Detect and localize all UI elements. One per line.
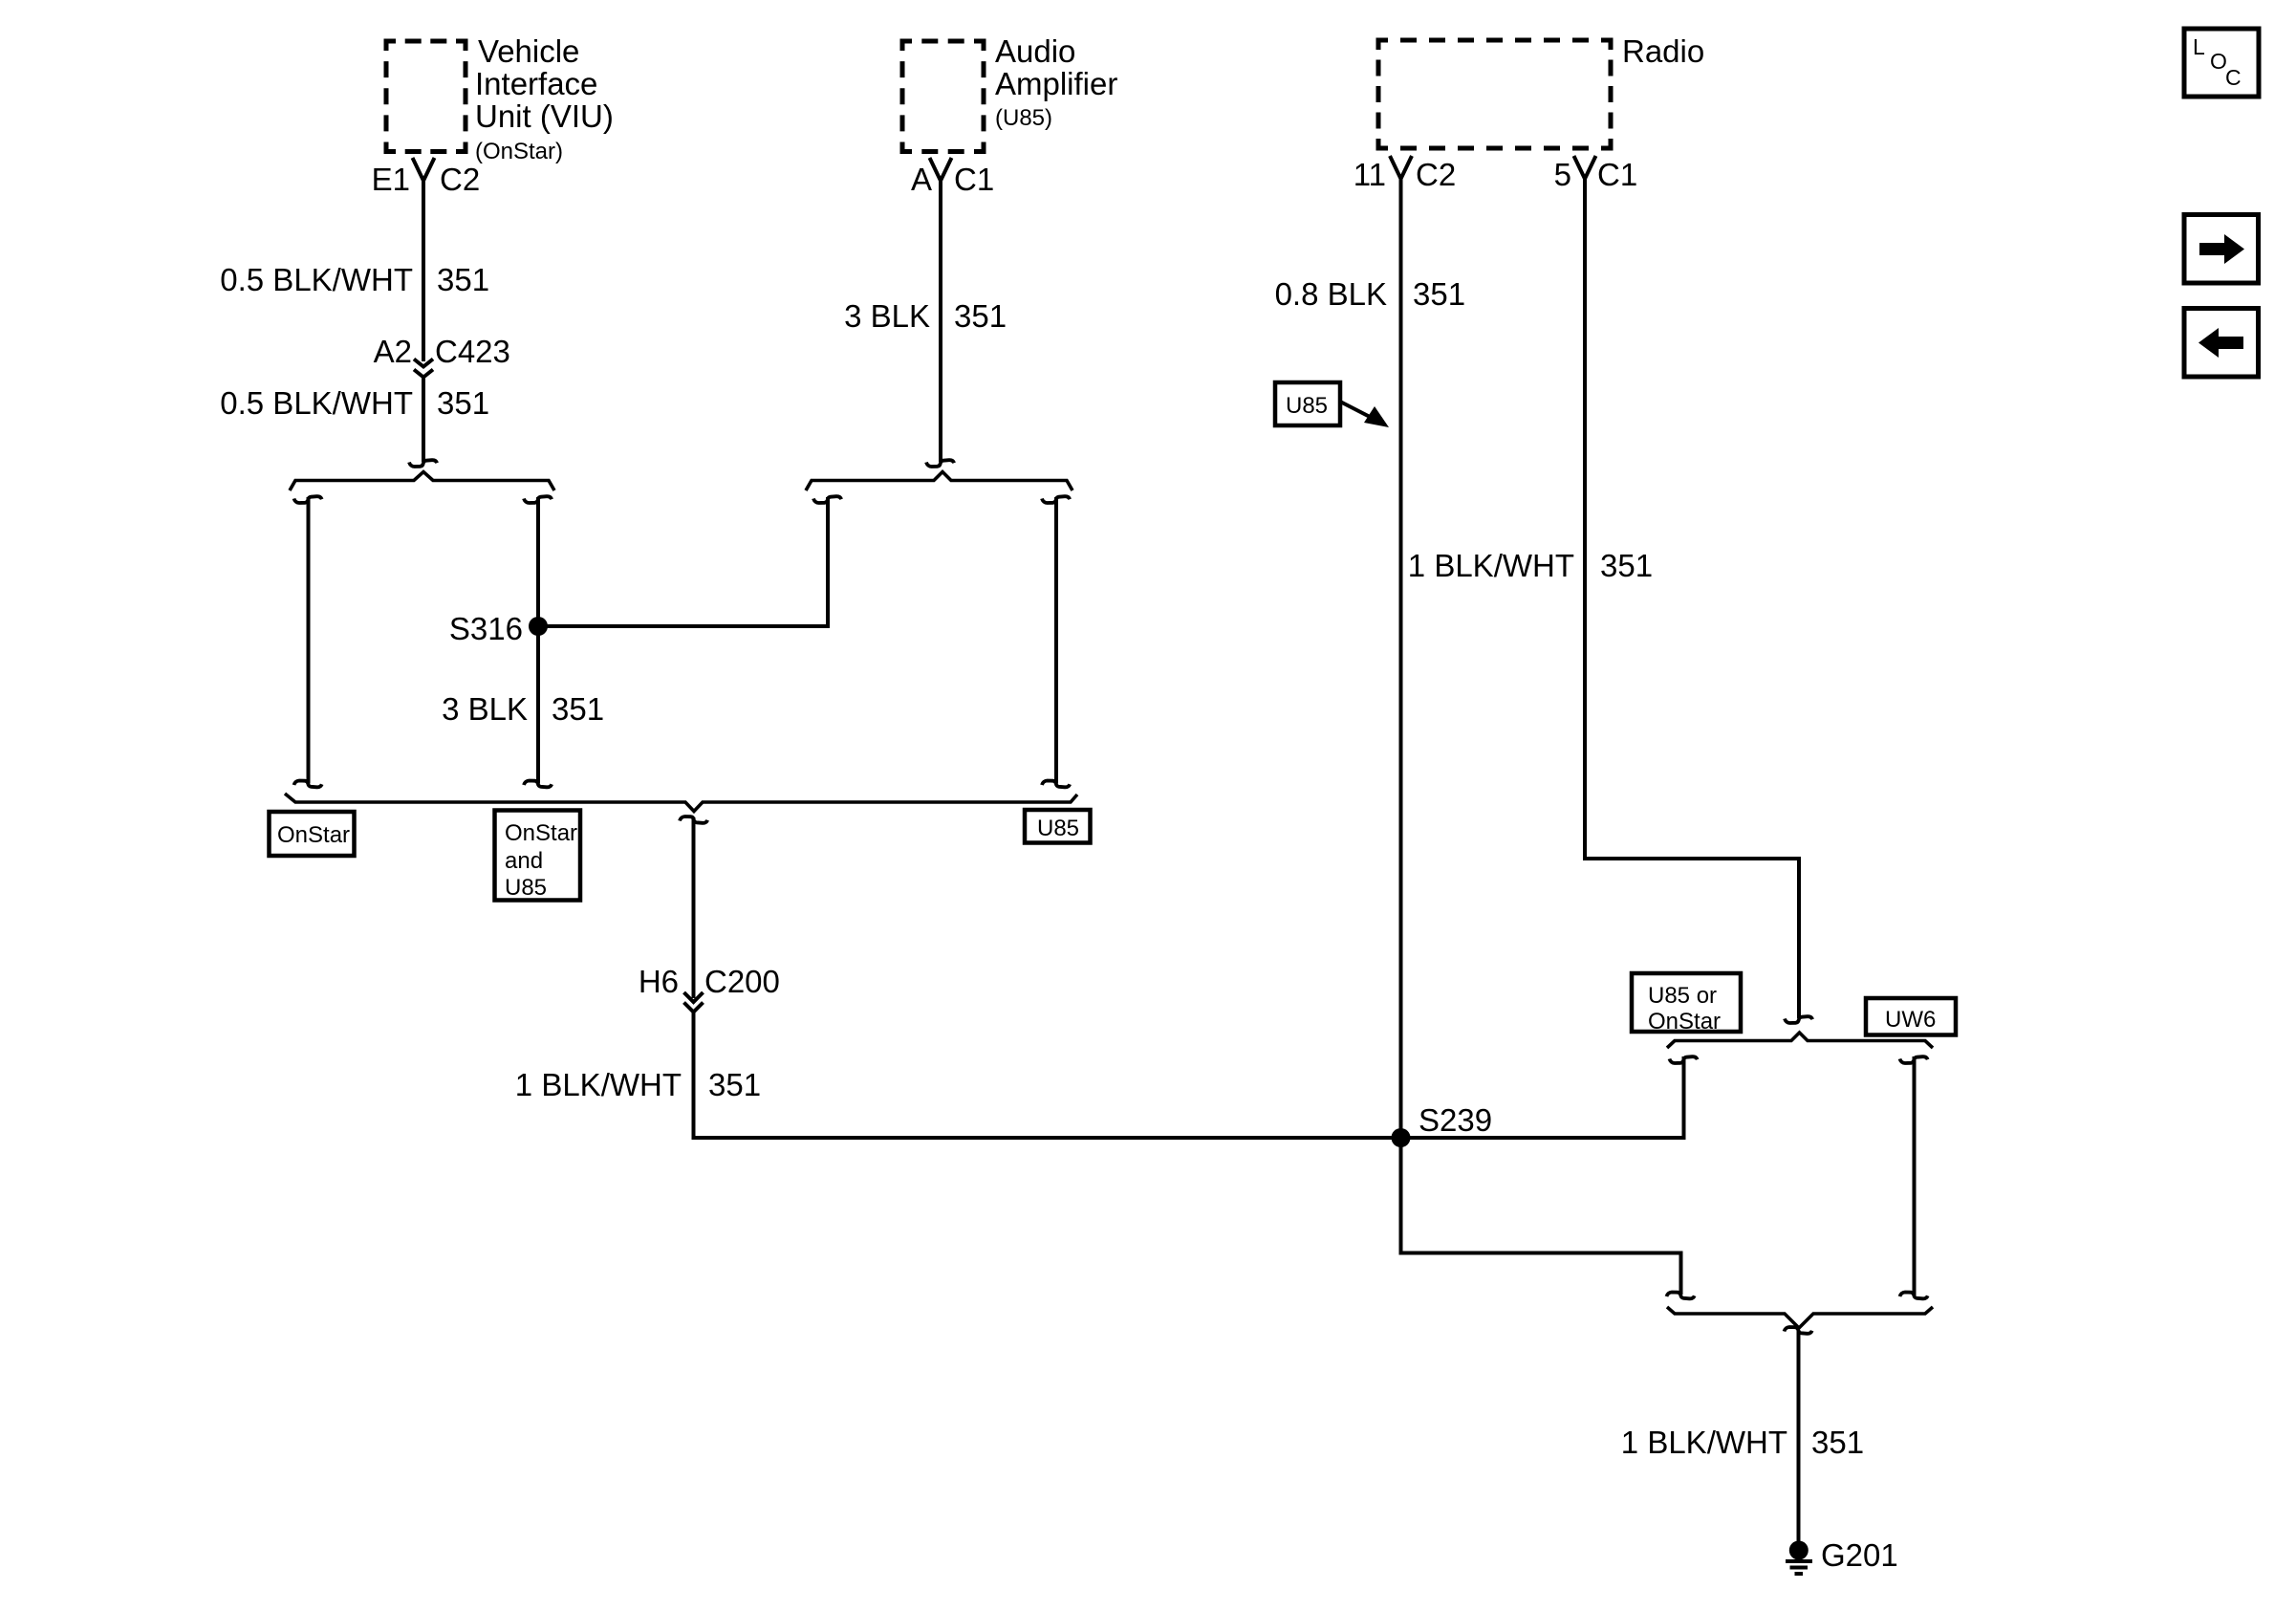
label box OnStar (270, 812, 355, 856)
svg-text:11: 11 (1354, 157, 1386, 192)
svg-text:Amplifier: Amplifier (995, 66, 1117, 101)
wire end hook above right bundle brace (1785, 1016, 1812, 1023)
splice S316 dot (529, 617, 548, 636)
left harness top brace (OnStar group) (290, 472, 554, 491)
svg-text:C1: C1 (954, 162, 994, 197)
wire 351 from amplifier (939, 181, 942, 462)
svg-text:U85: U85 (1286, 393, 1328, 419)
svg-text:Vehicle: Vehicle (478, 33, 579, 69)
hook at top of U85-or-OnStar branch wire (1670, 1056, 1698, 1063)
LOC legend icon box (2184, 29, 2259, 97)
wire from bundle down to C200 (upper segment) (692, 817, 696, 998)
svg-text:UW6: UW6 (1885, 1007, 1936, 1033)
wire 351 below C423 (422, 378, 425, 463)
hook at top of S316-to-U85 branch wire (813, 496, 841, 503)
svg-text:351: 351 (552, 691, 604, 727)
svg-text:OnStar: OnStar (277, 822, 350, 848)
connector box U3 Radio dashed outline (1378, 40, 1611, 148)
wire 351 below C200 to S239 (694, 1012, 1401, 1139)
hook at top of U85 branch wire (1042, 496, 1070, 503)
svg-text:1 BLK/WHT: 1 BLK/WHT (1408, 548, 1574, 583)
label box U85 at bottom line (1025, 810, 1091, 843)
harness bottom line with cusp to C200 (285, 794, 1077, 812)
in-line connector C200 chevrons (684, 992, 704, 1012)
svg-text:0.8 BLK: 0.8 BLK (1275, 276, 1387, 312)
svg-text:351: 351 (954, 298, 1007, 334)
label box OnStar and U85 (495, 811, 581, 901)
svg-text:OnStar: OnStar (1648, 1009, 1721, 1034)
wire from S239 down and right to lower bundle (1401, 1138, 1681, 1295)
svg-text:S239: S239 (1419, 1102, 1492, 1138)
svg-text:E1: E1 (372, 162, 410, 197)
svg-text:U85: U85 (1037, 816, 1079, 841)
svg-text:0.5 BLK/WHT: 0.5 BLK/WHT (220, 262, 413, 297)
hook at bottom of S316 branch wire (524, 781, 552, 788)
right bundle top brace (1667, 1033, 1933, 1048)
hook at top of S316 branch wire (524, 496, 552, 503)
wire end hook into right harness bundle (926, 460, 954, 467)
wire 351 from VIU E1 (upper segment) (422, 181, 425, 361)
label box UW6 (1866, 998, 1956, 1035)
svg-text:G201: G201 (1821, 1537, 1898, 1573)
wire from S239 right to U85-or-OnStar branch (1401, 1056, 1684, 1138)
svg-text:C423: C423 (435, 334, 510, 369)
svg-text:Unit (VIU): Unit (VIU) (475, 98, 614, 134)
svg-text:S316: S316 (449, 611, 523, 646)
connector box U1 Vehicle Interface Unit (VIU) dashed outline (386, 41, 466, 152)
callout arrow from U85 box to wire (1340, 402, 1374, 419)
hook at top of OnStar branch wire (294, 496, 322, 503)
svg-text:U85 or: U85 or (1648, 983, 1717, 1009)
svg-text:C: C (2225, 65, 2242, 90)
right bundle bottom brace (1667, 1307, 1933, 1328)
svg-text:H6: H6 (639, 964, 679, 999)
svg-text:C200: C200 (704, 964, 780, 999)
OnStar branch wire (307, 497, 311, 784)
hook at bottom of lower-left branch wire (1667, 1293, 1695, 1299)
svg-text:351: 351 (437, 385, 489, 421)
connector fork at radio pin 11/C2 (1390, 156, 1412, 179)
svg-text:351: 351 (708, 1067, 761, 1102)
in-line connector C423 chevrons (414, 359, 433, 378)
S316 branch wire (536, 497, 540, 784)
callout box U85 (1275, 382, 1340, 425)
svg-text:C2: C2 (440, 162, 480, 197)
connector fork at VIU pin E1/C2 (413, 158, 435, 181)
label box U85 or OnStar (1632, 973, 1741, 1032)
svg-text:3 BLK: 3 BLK (844, 298, 930, 334)
svg-text:Interface: Interface (475, 66, 597, 101)
ground wire 351 to G201 (1797, 1330, 1801, 1541)
svg-text:351: 351 (1413, 276, 1465, 312)
svg-text:C1: C1 (1597, 157, 1637, 192)
svg-text:A2: A2 (374, 334, 412, 369)
hook at bottom of U85 branch wire (1042, 781, 1070, 788)
svg-text:351: 351 (437, 262, 489, 297)
wire 351 from radio pin 11 down to S239 (1399, 179, 1403, 1138)
wire 351 from radio pin 5 (C1) down and right (1585, 179, 1799, 1018)
hook at bottom of UW6 branch wire (1900, 1293, 1928, 1299)
legend icon right-arrow box (2184, 215, 2259, 284)
right harness top brace (U85 group) (806, 472, 1072, 491)
connector box U2 Audio Amplifier dashed outline (902, 41, 984, 152)
UW6 branch wire (1913, 1056, 1917, 1295)
hook at top of UW6 branch wire (1900, 1056, 1928, 1063)
svg-text:Audio: Audio (995, 33, 1075, 69)
connector fork at amplifier pin A/C1 (930, 158, 952, 181)
hook at bottom of OnStar branch wire (294, 781, 322, 788)
svg-text:(OnStar): (OnStar) (475, 139, 563, 164)
svg-text:(U85): (U85) (995, 105, 1052, 131)
svg-text:Radio: Radio (1622, 33, 1704, 69)
svg-text:1 BLK/WHT: 1 BLK/WHT (1621, 1425, 1787, 1460)
svg-text:0.5 BLK/WHT: 0.5 BLK/WHT (220, 385, 413, 421)
svg-text:A: A (911, 162, 932, 197)
wire from S316 to amplifier bundle branch (538, 497, 828, 626)
svg-text:5: 5 (1554, 157, 1571, 192)
ground G201 symbol (1786, 1541, 1812, 1575)
svg-text:L: L (2193, 34, 2205, 59)
svg-text:OnStar: OnStar (505, 820, 577, 846)
svg-text:and: and (505, 848, 543, 874)
legend icon left-arrow box (2184, 309, 2259, 378)
svg-text:U85: U85 (505, 875, 547, 901)
hook below bottom line cusp (680, 816, 707, 823)
hook below bottom brace cusp (1785, 1327, 1812, 1334)
label Vehicle Interface Unit (VIU) (OnStar) (475, 33, 614, 164)
label Audio Amplifier (U85) (995, 33, 1117, 131)
svg-text:351: 351 (1600, 548, 1653, 583)
svg-text:1 BLK/WHT: 1 BLK/WHT (515, 1067, 682, 1102)
connector fork at radio pin 5/C1 (1574, 156, 1596, 179)
splice S239 dot (1392, 1128, 1411, 1147)
U85 branch wire (1054, 497, 1058, 784)
svg-text:3 BLK: 3 BLK (442, 691, 528, 727)
wire end hook into left harness bundle (409, 460, 437, 467)
svg-text:351: 351 (1811, 1425, 1864, 1460)
svg-text:C2: C2 (1416, 157, 1456, 192)
